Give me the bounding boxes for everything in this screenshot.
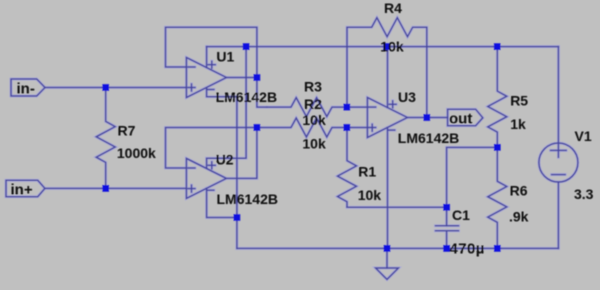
node ground rail: [384, 245, 391, 252]
svg-text:.9k: .9k: [509, 209, 529, 225]
svg-text:LM6142B: LM6142B: [217, 191, 278, 207]
svg-text:in+: in+: [11, 182, 33, 199]
svg-text:1000k: 1000k: [117, 145, 156, 161]
node rail U2 drop: [243, 43, 250, 50]
svg-text:R7: R7: [118, 123, 136, 139]
svg-text:R5: R5: [510, 93, 528, 109]
node out: [424, 114, 431, 121]
node C1 bottom: [443, 245, 450, 252]
node rail R5: [494, 43, 501, 50]
svg-text:10k: 10k: [302, 112, 326, 128]
junction nodes: [102, 43, 500, 251]
node rail U3 pin: [383, 43, 390, 50]
svg-text:R3: R3: [304, 78, 322, 94]
svg-text:10k: 10k: [302, 136, 326, 152]
node R7 top: [102, 84, 109, 91]
node U2 out: [254, 124, 261, 131]
node C1 top: [443, 204, 450, 211]
svg-text:C1: C1: [452, 207, 470, 223]
svg-text:U2: U2: [216, 152, 234, 168]
node U2 Vminus: [234, 214, 241, 221]
svg-text:10k: 10k: [380, 38, 404, 54]
svg-text:in-: in-: [17, 81, 35, 98]
svg-text:R2: R2: [304, 96, 322, 112]
svg-text:470µ: 470µ: [450, 241, 485, 258]
svg-text:R1: R1: [358, 163, 376, 179]
svg-text:R4: R4: [384, 0, 402, 16]
node U3 plus: [344, 124, 351, 131]
node R7 bottom: [102, 185, 109, 192]
svg-text:LM6142B: LM6142B: [216, 89, 277, 105]
node R5 bottom: [494, 144, 501, 151]
svg-text:out: out: [449, 111, 472, 128]
svg-text:1k: 1k: [510, 116, 526, 132]
node U3 minus: [344, 104, 351, 111]
svg-text:R6: R6: [510, 183, 528, 199]
svg-text:10k: 10k: [358, 187, 382, 203]
node R6 bottom: [494, 245, 501, 252]
svg-text:U1: U1: [216, 49, 234, 65]
svg-text:U3: U3: [398, 89, 416, 105]
svg-text:LM6142B: LM6142B: [398, 130, 459, 146]
svg-text:3.3: 3.3: [574, 186, 594, 202]
node U1 out: [254, 74, 261, 81]
svg-text:V1: V1: [575, 128, 592, 144]
